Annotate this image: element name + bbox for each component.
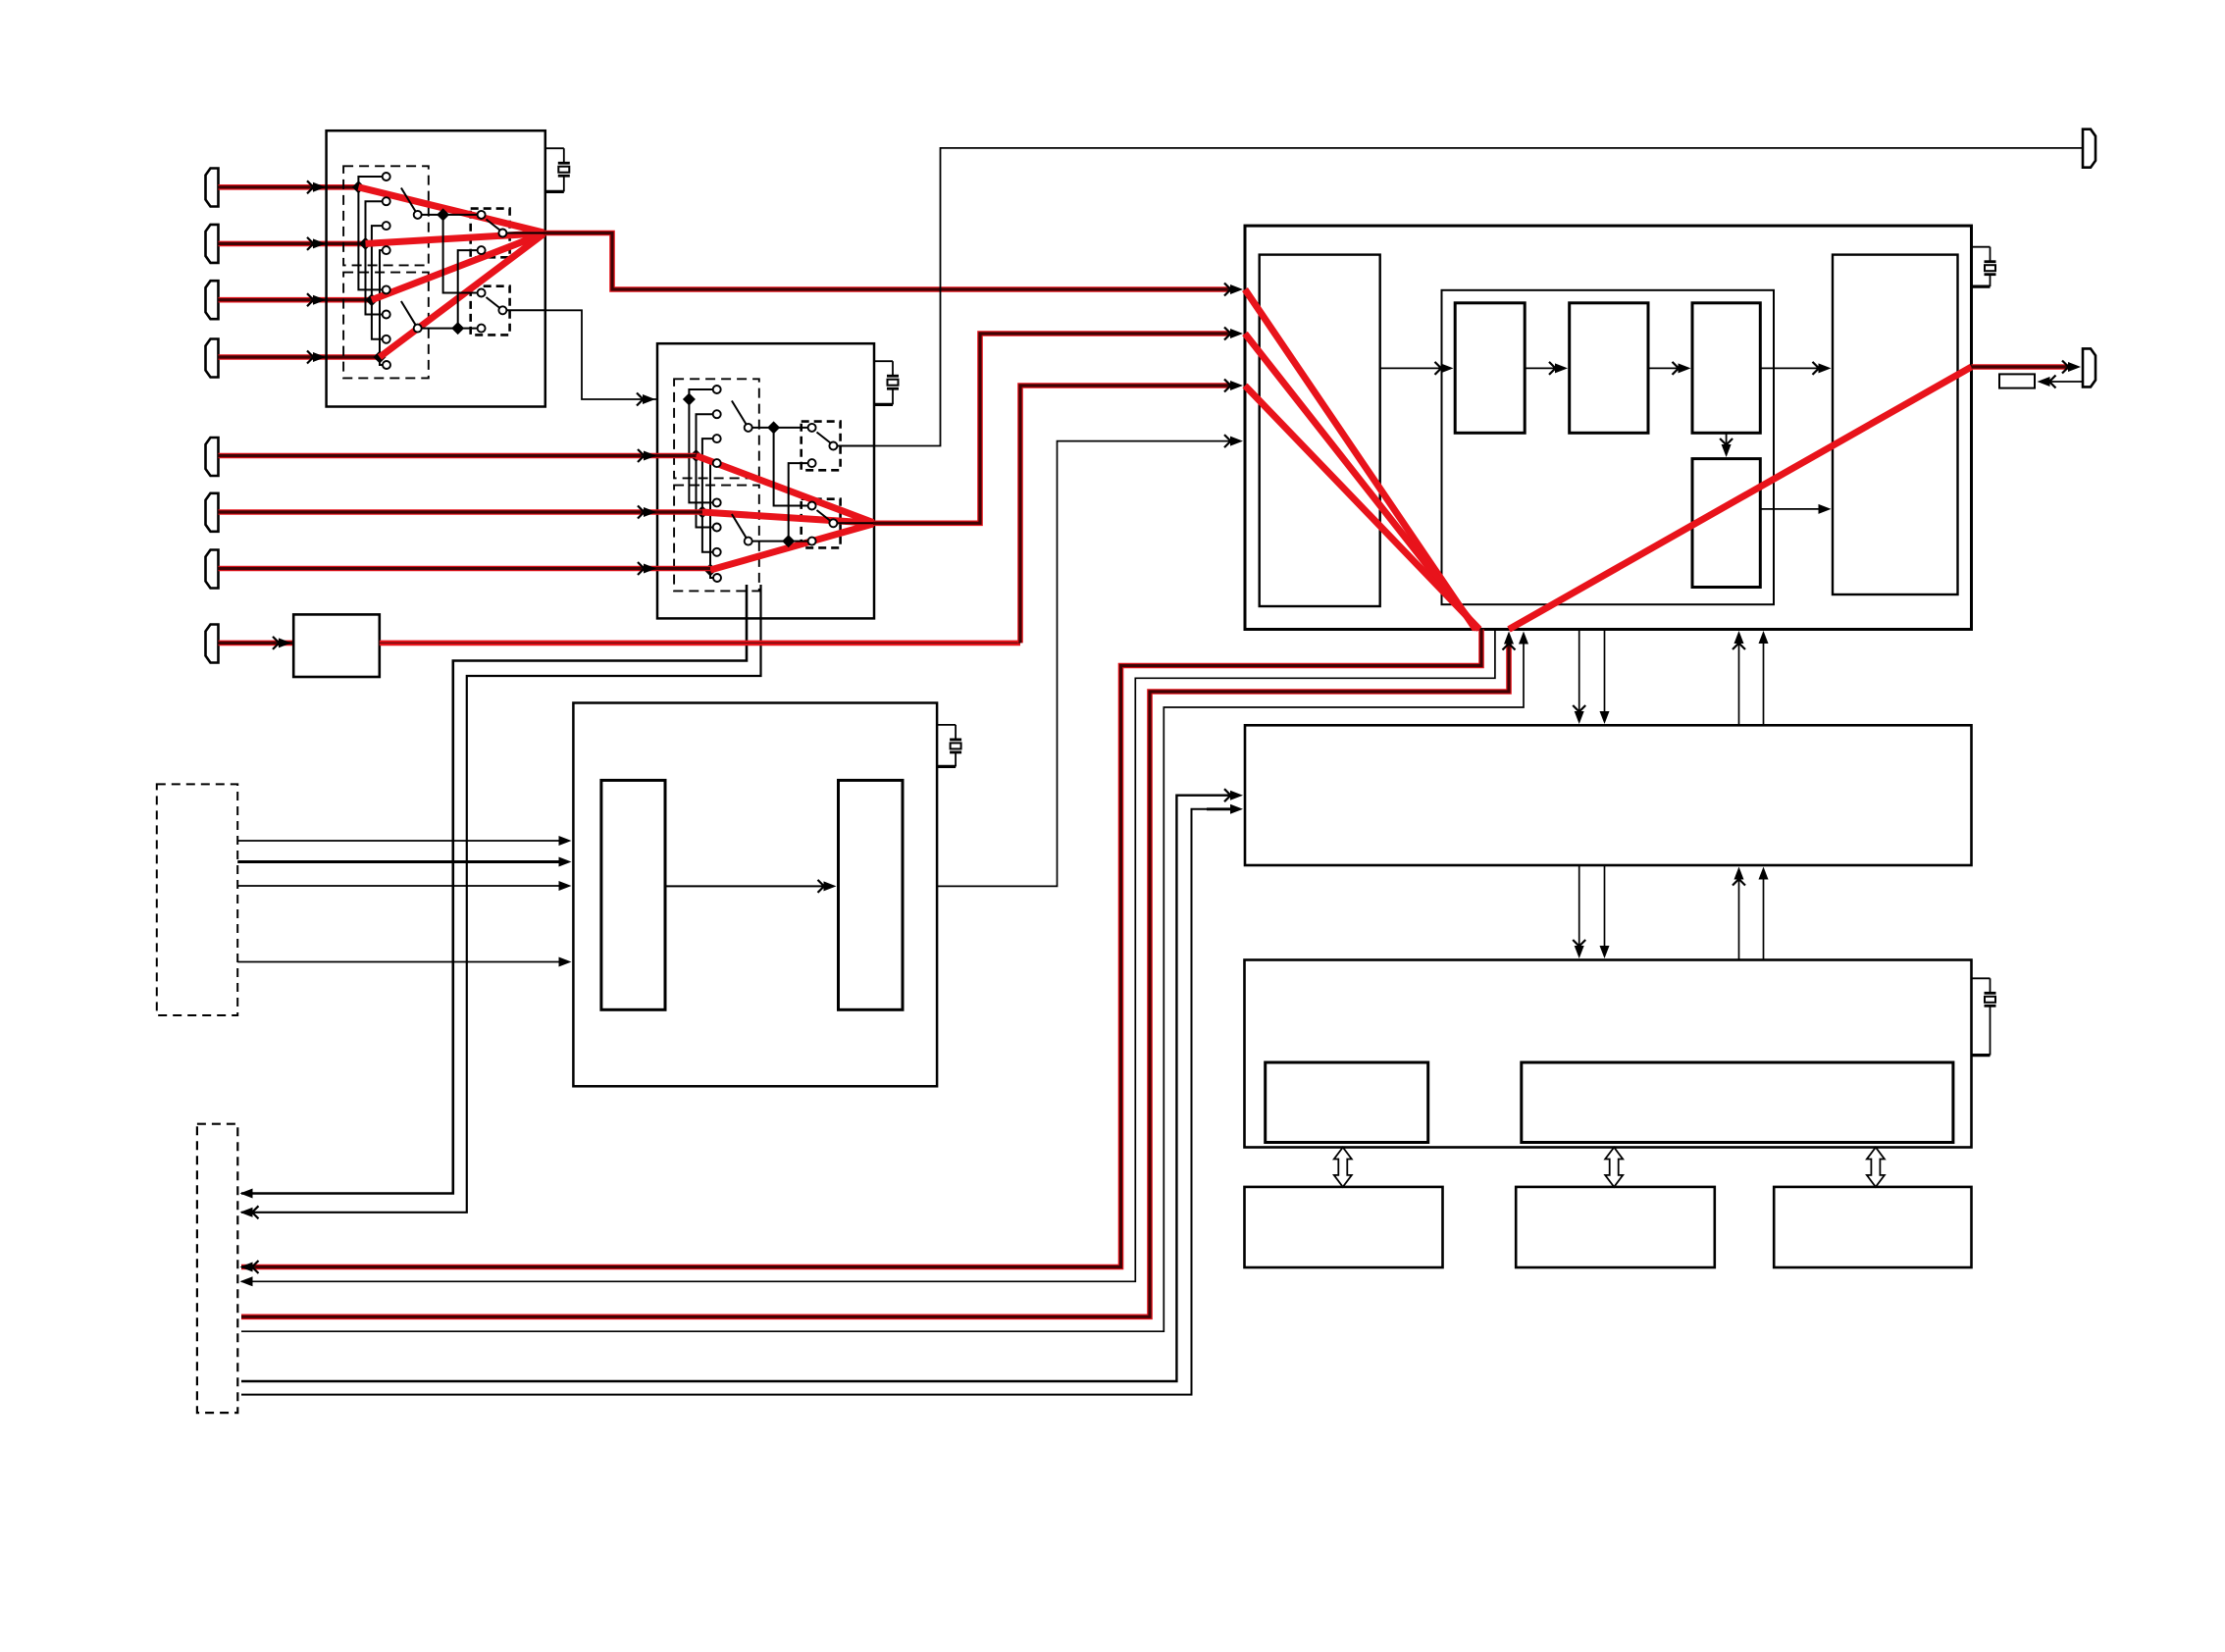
- box D internal arrow D1 to D2: [665, 885, 825, 887]
- box A junction diamond D6: [451, 322, 464, 335]
- arrowhead HI down2: [1600, 946, 1610, 958]
- box A wire cross to lower: [458, 250, 479, 329]
- arrowhead GH down2: [1600, 711, 1610, 724]
- box B relay1 circle UL: [808, 424, 816, 432]
- box B switch lever lower: [732, 514, 747, 539]
- arrowhead HG up2: [1759, 631, 1769, 644]
- dashed box E (external unit): [157, 784, 237, 1015]
- double arrow I-J1: [1334, 1148, 1352, 1187]
- wire input2 red: [219, 241, 366, 247]
- box A wire moving2 to relay: [422, 328, 479, 330]
- box B junction diamond D5: [767, 421, 780, 434]
- box A ladder wire 4: [380, 250, 384, 365]
- wire E out3: [237, 885, 561, 887]
- box A contact circle 7: [383, 336, 390, 343]
- box B dashed relay lower: [802, 499, 841, 548]
- arrowhead E out2: [559, 857, 572, 867]
- box A wire moving1 to relay: [422, 214, 479, 216]
- arrowhead GF1 into F: [252, 1261, 259, 1273]
- box G red diagonal out: [1509, 367, 1972, 630]
- double arrow I-J3: [1867, 1148, 1885, 1187]
- arrowhead input3: [307, 293, 314, 306]
- box G red diagonal in2: [1245, 334, 1477, 630]
- box G rect G3: [1455, 303, 1525, 434]
- box I outline: [1245, 960, 1972, 1148]
- wire FH1: [241, 796, 1231, 1381]
- box B dashed relay upper: [802, 422, 841, 471]
- wire E out2 bold: [237, 860, 561, 863]
- box A relay2 lever: [487, 297, 500, 308]
- box B dashed switch bank lower: [674, 486, 759, 592]
- box B contact circle 5: [713, 498, 721, 506]
- arrowhead IH up1: [1733, 879, 1745, 886]
- box B wire relay2 out: [838, 522, 874, 524]
- box B switch lever upper: [732, 401, 747, 426]
- box D inner rect D1: [601, 780, 665, 1009]
- arrowhead input6: [638, 506, 645, 519]
- box A contact circle 2: [383, 197, 390, 205]
- wire RA (A apex to G input1): [543, 233, 1231, 290]
- box A wire relay1 out: [507, 232, 545, 234]
- crystal X4 at box G: [1972, 246, 1991, 248]
- wire W1 (A lower out to B input1): [545, 310, 657, 399]
- box J1 (memory 1): [1245, 1187, 1443, 1267]
- connector CN9 (top right): [2083, 129, 2096, 168]
- box A relay2 circle R: [498, 306, 506, 314]
- box A relay1 lever: [487, 220, 500, 231]
- box G red diagonal in1: [1245, 289, 1475, 630]
- box B relay2 circle R: [829, 519, 837, 527]
- box B relay2 circle UL: [808, 502, 816, 510]
- box B relay1 circle LL: [808, 459, 816, 467]
- wire GH down2: [1604, 630, 1606, 714]
- arrowhead input5: [638, 449, 645, 462]
- connector CN10 (monitor out): [2083, 348, 2096, 387]
- arrowhead RC: [1224, 380, 1231, 392]
- arrowhead E out4: [559, 957, 572, 967]
- arrowhead WV2 into F: [252, 1206, 259, 1218]
- box B ladder wire 3: [702, 439, 714, 552]
- box A wire D5 down: [443, 215, 479, 293]
- box A moving contact upper: [414, 211, 422, 219]
- box A red fan line 1: [358, 187, 543, 232]
- box G arrow G1-G3: [1380, 367, 1443, 369]
- box G red diagonal in3: [1245, 386, 1479, 630]
- box B wire moving1 to relay: [752, 427, 809, 429]
- box B contact circle 4: [713, 459, 721, 467]
- box I inner rect I2: [1522, 1062, 1953, 1143]
- box A relay1 circle LL: [478, 246, 486, 254]
- wire GF1 red: [241, 630, 1481, 1267]
- wire WV1 (B to F): [241, 585, 747, 1194]
- arrowhead input4: [307, 351, 314, 364]
- box A contact circle 3: [383, 222, 390, 230]
- box A ladder wire 2: [366, 201, 384, 314]
- wire input7 red: [219, 566, 711, 572]
- box H outline: [1245, 725, 1972, 865]
- arrowhead input2: [307, 237, 314, 250]
- box A contact circle 8: [383, 361, 390, 369]
- box B dashed switch bank upper: [674, 379, 759, 478]
- box A junction diamond D3: [365, 293, 378, 306]
- arrowhead FH1 into H: [1224, 789, 1231, 801]
- arrowhead input8: [273, 637, 280, 649]
- wire GF2 black: [241, 630, 1495, 1282]
- box B wire moving2 to relay: [752, 541, 809, 542]
- box G rect G4: [1570, 303, 1648, 434]
- box G sub-box G2: [1442, 290, 1775, 604]
- arrowhead GF3 up into G: [1503, 644, 1516, 650]
- wire RC risers: [1020, 386, 1231, 643]
- crystal X1 at box A: [545, 147, 564, 149]
- arrowhead FH2 into H: [1230, 804, 1243, 814]
- box A junction diamond D2: [359, 237, 372, 250]
- box A contact circle 5: [383, 285, 390, 293]
- arrowhead E out3: [559, 881, 572, 891]
- box B wire cross to lower: [789, 463, 809, 541]
- wire input1 red: [219, 184, 359, 190]
- arrowhead HG up1: [1733, 644, 1745, 650]
- box G left tall rect G1: [1260, 255, 1380, 606]
- wire input8 red: [219, 641, 294, 646]
- box A contact circle 4: [383, 246, 390, 254]
- connector CN8 (input 8): [206, 625, 219, 663]
- arrowhead RB: [1224, 328, 1231, 340]
- wire HG up1: [1738, 642, 1740, 726]
- wire FH2 end bold: [1207, 807, 1231, 810]
- box A dashed relay lower: [471, 286, 510, 336]
- arrowhead input1: [307, 181, 314, 193]
- box B red fan line 3: [702, 512, 873, 523]
- box G arrow G3-G4: [1525, 367, 1557, 369]
- box B moving contact upper: [745, 424, 752, 432]
- box B contact circle 1: [713, 386, 721, 393]
- box G outline: [1245, 226, 1972, 629]
- box B junction diamond D1: [683, 393, 696, 406]
- box B relay1 circle R: [829, 442, 837, 450]
- box J2 (memory 2): [1516, 1187, 1715, 1267]
- arrowhead input7: [638, 562, 645, 575]
- box B relay2 circle LL: [808, 538, 816, 545]
- arrowhead W1: [637, 393, 644, 406]
- box A ladder wire 3: [372, 226, 384, 339]
- box G arrow G4-G5: [1648, 367, 1680, 369]
- box G rect G6: [1692, 459, 1760, 588]
- arrowhead GH down1: [1573, 705, 1585, 712]
- box A relay1 circle UL: [478, 211, 486, 219]
- box D outline: [573, 703, 937, 1087]
- crystal X3 at box D: [937, 724, 956, 726]
- arrowhead E out1: [559, 836, 572, 846]
- arrowhead RA: [1224, 284, 1231, 296]
- arrowhead GF2 into F: [240, 1276, 253, 1286]
- arrowhead HI down1: [1573, 940, 1585, 947]
- box B relay2 lever: [817, 510, 831, 521]
- wire input5 red: [219, 453, 697, 459]
- box B moving contact lower: [745, 538, 752, 545]
- wire input6 red: [219, 509, 702, 515]
- box A (input selector 1) outline: [327, 130, 545, 406]
- box G rect G5: [1692, 303, 1760, 434]
- connector CN2 (input 2): [206, 225, 219, 263]
- wire CN10 to label box: [2048, 381, 2083, 383]
- box B wire relay1 out: [838, 445, 874, 447]
- box B relay1 lever: [817, 433, 831, 443]
- wire RC (C out to G input3): [380, 641, 1020, 646]
- box B junction diamond D3: [696, 506, 708, 519]
- wire E out4: [237, 961, 561, 963]
- wire input4 red: [219, 354, 381, 360]
- box A junction diamond D4: [374, 351, 387, 364]
- box B contact circle 3: [713, 435, 721, 442]
- box G arrow G5-G7: [1760, 367, 1820, 369]
- wire W2 (D out to G input4): [937, 441, 1231, 887]
- wire FH2: [241, 809, 1231, 1395]
- crystal X5 at box I: [1972, 977, 1991, 979]
- dashed box F (external unit 2): [197, 1124, 237, 1413]
- box G arrow G5-G6: [1726, 433, 1728, 446]
- double arrow I-J2: [1605, 1148, 1623, 1187]
- wire B upper out to CN9: [874, 148, 2083, 446]
- connector CN1 (input 1): [206, 169, 219, 207]
- arrowhead Rout: [2062, 361, 2069, 374]
- connector CN7 (input 7): [206, 550, 219, 589]
- connector CN6 (input 6): [206, 493, 219, 532]
- box B ladder wire 1: [689, 389, 714, 502]
- box B ladder wire 2: [697, 414, 715, 527]
- box A dashed switch bank lower: [343, 273, 429, 379]
- box A dashed relay upper: [471, 209, 510, 258]
- box J3 (memory 3): [1774, 1187, 1971, 1267]
- box A relay2 circle UL: [478, 289, 486, 297]
- box B (input selector 2) outline: [657, 343, 874, 618]
- wire RB (B apex to G input2): [873, 334, 1231, 523]
- wire E out1: [237, 840, 561, 842]
- connector CN3 (input 3): [206, 281, 219, 319]
- wire IH up1: [1738, 877, 1740, 960]
- connector CN5 (input 5): [206, 438, 219, 476]
- arrowhead IH up2: [1759, 867, 1769, 880]
- box A switch lever lower: [401, 301, 416, 326]
- box D inner rect D2: [839, 780, 904, 1009]
- box A moving contact lower: [414, 325, 422, 333]
- box B contact circle 6: [713, 524, 721, 532]
- label box near CN10: [1999, 374, 2035, 387]
- box B contact circle 8: [713, 574, 721, 582]
- box A junction diamond D5: [437, 208, 449, 221]
- box A relay2 circle LL: [478, 325, 486, 333]
- box A ladder wire 1: [358, 177, 384, 289]
- box B red fan line 2: [697, 456, 874, 523]
- wire WV2 (B to F): [241, 585, 761, 1213]
- arrowhead GF4 up into G: [1519, 632, 1528, 645]
- box A wire relay2 out: [507, 309, 545, 311]
- box A relay1 circle R: [498, 230, 506, 237]
- wire Rout (G to CN10): [1972, 364, 2071, 370]
- arrowhead into label box: [2049, 376, 2056, 388]
- box A red fan line 2: [366, 233, 544, 244]
- box A red fan line 4: [380, 234, 543, 357]
- box B junction diamond D2: [690, 449, 702, 462]
- box A contact circle 6: [383, 311, 390, 319]
- box C (buffer amp): [293, 614, 380, 677]
- wire HG up2: [1763, 642, 1765, 726]
- arrowhead WV1 into F: [240, 1189, 253, 1199]
- box B junction diamond D4: [704, 564, 717, 577]
- wire HI down2: [1604, 865, 1606, 948]
- arrowhead W2: [1224, 435, 1231, 447]
- wire GH down1: [1578, 630, 1580, 714]
- box B contact circle 2: [713, 410, 721, 418]
- wire input3 red: [219, 297, 372, 303]
- box A dashed switch bank upper: [343, 166, 429, 265]
- wire GF3 red: [241, 640, 1509, 1316]
- wire GF4 black: [241, 640, 1524, 1331]
- box A red fan line 3: [372, 233, 543, 300]
- box A junction diamond D1: [352, 181, 365, 193]
- box B red fan line 4: [710, 524, 873, 570]
- crystal X2 at box B: [874, 360, 893, 362]
- wire HI down1: [1578, 865, 1580, 948]
- box B wire D5 down: [774, 428, 809, 506]
- connector CN4 (input 4): [206, 339, 219, 378]
- box A switch lever upper: [401, 188, 416, 213]
- box B contact circle 7: [713, 548, 721, 556]
- box A contact circle 1: [383, 173, 390, 181]
- box B ladder wire 4: [710, 463, 714, 578]
- box G arrow G6-G7: [1760, 508, 1820, 510]
- box G right tall rect G7: [1833, 255, 1958, 594]
- wire IH up2: [1763, 877, 1765, 960]
- box B junction diamond D6: [782, 535, 795, 547]
- box I inner rect I1: [1266, 1062, 1428, 1143]
